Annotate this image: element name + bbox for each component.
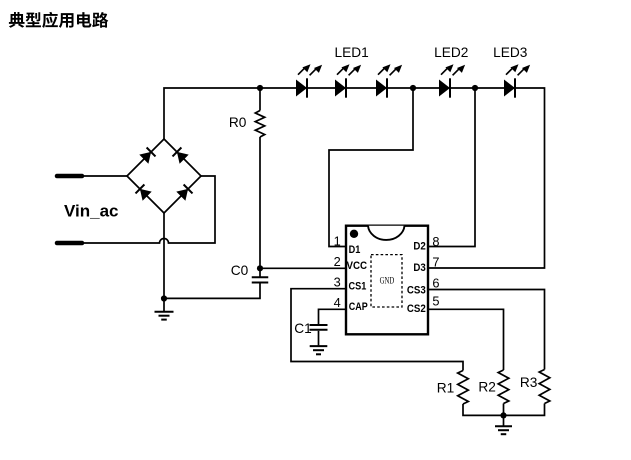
svg-text:VCC: VCC xyxy=(347,260,368,272)
svg-text:D2: D2 xyxy=(413,240,425,252)
svg-text:GND: GND xyxy=(380,277,395,287)
svg-text:2: 2 xyxy=(334,254,341,269)
svg-text:4: 4 xyxy=(334,295,341,310)
svg-text:Vin_ac: Vin_ac xyxy=(64,201,119,220)
svg-text:R3: R3 xyxy=(520,375,538,390)
svg-text:5: 5 xyxy=(432,294,439,309)
svg-text:LED3: LED3 xyxy=(493,45,528,60)
svg-text:R2: R2 xyxy=(478,380,496,395)
svg-text:LED1: LED1 xyxy=(335,45,369,60)
svg-text:D1: D1 xyxy=(349,244,361,256)
svg-text:D3: D3 xyxy=(413,262,425,274)
svg-text:7: 7 xyxy=(432,255,439,270)
svg-text:1: 1 xyxy=(334,234,341,249)
svg-text:CS1: CS1 xyxy=(349,280,367,292)
svg-text:R1: R1 xyxy=(437,381,455,396)
svg-text:C1: C1 xyxy=(294,321,312,336)
svg-text:3: 3 xyxy=(334,275,341,290)
svg-text:LED2: LED2 xyxy=(434,45,468,60)
svg-text:8: 8 xyxy=(432,234,439,249)
svg-text:6: 6 xyxy=(432,276,439,291)
svg-text:CAP: CAP xyxy=(349,301,368,313)
svg-text:C0: C0 xyxy=(231,263,249,278)
svg-text:R0: R0 xyxy=(229,115,247,130)
svg-text:CS2: CS2 xyxy=(407,303,426,315)
svg-text:CS3: CS3 xyxy=(407,284,426,296)
